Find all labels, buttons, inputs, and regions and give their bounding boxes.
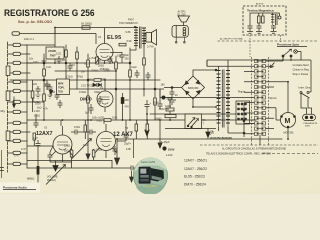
svg-text:Contatto bleid: Contatto bleid: [293, 63, 310, 67]
node B: [87, 79, 89, 81]
wire to oval: [133, 139, 135, 158]
switch labels: [238, 91, 277, 101]
ground GND4 hatched: [271, 32, 277, 34]
wire top bus 2: [26, 28, 55, 64]
capacitor C9: [98, 96, 103, 104]
wire head down dashed: [249, 35, 251, 57]
svg-text:6.6K: 6.6K: [127, 40, 132, 43]
svg-text:25µF+: 25µF+: [124, 143, 132, 146]
svg-text:EL95 - 256/23: EL95 - 256/23: [184, 175, 205, 179]
svg-text:0.47: 0.47: [33, 137, 38, 140]
node G: [171, 87, 173, 89]
wire vertical v7: [143, 34, 145, 96]
svg-text:AL CIRCUITO DI CANCELLAZ. E PR: AL CIRCUITO DI CANCELLAZ. E PREMAGNETIZZ…: [222, 148, 286, 151]
svg-text:47kΩ: 47kΩ: [77, 76, 83, 79]
wire mic dashes: [0, 109, 6, 171]
ground GND5 arrow: [130, 171, 134, 182]
svg-text:220kΩ: 220kΩ: [91, 70, 98, 73]
label Posizione Spia: [277, 43, 307, 47]
resistor R4: [65, 50, 68, 57]
loudspeaker AP main: [172, 11, 190, 37]
wire bus y120: [27, 119, 256, 121]
switch contacts row 6: [255, 85, 266, 88]
wire bus y71: [55, 70, 116, 72]
wire head row to bank: [33, 101, 44, 103]
svg-text:Inter. Gen.: Inter. Gen.: [299, 86, 312, 90]
svg-text:150Ω: 150Ω: [64, 145, 70, 148]
jack J2: [13, 52, 30, 55]
capacitor C28: [55, 92, 60, 100]
node H: [43, 62, 45, 64]
svg-text:16Ω: 16Ω: [88, 79, 93, 82]
svg-text:4.7kΩ: 4.7kΩ: [89, 57, 96, 60]
svg-text:0.22: 0.22: [46, 66, 51, 69]
svg-text:AL/P19: AL/P19: [256, 3, 264, 6]
edge line: [1, 150, 3, 178]
potentiometer arrow mid: [72, 139, 92, 159]
capacitor C4: [108, 56, 113, 64]
svg-text:~ 115/125/160/220V: ~ 115/125/160/220V: [207, 136, 232, 140]
electrolytic C22: [145, 100, 152, 130]
recorder side dark mass: [151, 168, 164, 182]
svg-text:Riprod.: Riprod.: [270, 97, 278, 100]
capacitor C8: [58, 100, 63, 108]
title REGISTRATORE G 256: [4, 8, 95, 18]
switch contacts row 2: [255, 65, 266, 68]
resistor R6: [87, 60, 90, 67]
electrolytic C15: [153, 101, 163, 109]
svg-text:0,7VA: 0,7VA: [147, 46, 154, 49]
head coil L1: [271, 14, 281, 25]
svg-text:Testina Magnetica: Testina Magnetica: [247, 9, 274, 13]
tube V2 12AX7 triode left: [36, 126, 73, 162]
wire vertical v1: [65, 45, 67, 80]
wire bus y139: [117, 138, 282, 140]
ground GND8 arrow: [158, 89, 162, 148]
svg-text:680kΩ: 680kΩ: [27, 178, 34, 181]
svg-text:PRESA RETE: PRESA RETE: [304, 122, 318, 125]
svg-text:1M: 1M: [81, 71, 84, 74]
wire top HT bus: [55, 27, 134, 29]
svg-text:Chiuso in Reg.: Chiuso in Reg.: [293, 68, 310, 72]
wire anode V3 riser: [117, 120, 126, 141]
jack J9: [13, 121, 27, 124]
svg-text:12AX7 - 256/22: 12AX7 - 256/22: [184, 167, 207, 171]
resistor R25 vertical: [121, 93, 124, 120]
svg-text:47kΩ: 47kΩ: [74, 126, 80, 129]
switch bank S1 dashed rails: [252, 57, 269, 145]
resistor R14 horizontal: [104, 119, 111, 122]
node E: [43, 79, 45, 81]
svg-text:6.8K: 6.8K: [126, 31, 131, 34]
wire sw stubs left: [244, 71, 255, 133]
switch contacts row 1: [255, 59, 266, 62]
resistor R22: [135, 120, 138, 139]
svg-text:EL.25A: EL.25A: [178, 14, 187, 17]
resistor R1 on rail: [6, 66, 10, 76]
wire vertical v8: [154, 48, 156, 120]
svg-text:1M: 1M: [71, 64, 74, 67]
svg-text:Soc. p. Az. GELOSO: Soc. p. Az. GELOSO: [18, 20, 52, 24]
resistor R2 on rail: [6, 91, 10, 101]
connector grid CN1: [236, 101, 250, 124]
node C: [115, 88, 117, 90]
wire jack stubs to rail: [8, 45, 14, 164]
svg-text:2.2M: 2.2M: [34, 110, 40, 113]
switch contacts row 10: [255, 106, 266, 109]
switch contacts row 8: [255, 96, 266, 99]
jack J10: [13, 130, 30, 133]
svg-text:22n: 22n: [62, 59, 67, 62]
switch Inter.Gen.: [299, 60, 312, 114]
jack J12: [13, 151, 27, 154]
svg-text:250V: 250V: [168, 147, 175, 151]
svg-text:2.2kΩ: 2.2kΩ: [66, 76, 73, 79]
wire vertical v4: [43, 54, 45, 120]
resistor R3 on rail: [6, 131, 10, 141]
cathode resistor R20 V2: [70, 146, 73, 162]
switch contacts row 9: [255, 101, 266, 104]
wire bus y63: [27, 62, 130, 64]
diode D3: [98, 83, 101, 86]
equalizer network box A784B TM7: [46, 47, 64, 59]
switch contacts row 13: [255, 122, 266, 125]
resistor R13 horizontal: [94, 79, 101, 82]
capacitor C21: [34, 114, 39, 128]
switch contacts row 4: [255, 75, 266, 78]
resistor R27: [43, 69, 46, 76]
wire anode V2: [60, 120, 62, 126]
pilot switch SP: [282, 49, 301, 61]
svg-text:Stop e Pausa: Stop e Pausa: [293, 72, 309, 76]
node D: [129, 62, 131, 64]
capacitor C29: [45, 80, 50, 90]
node A: [65, 62, 67, 64]
switch contacts row 14: [255, 127, 266, 130]
motor M1: [281, 82, 296, 139]
tube V4 EL95 output pentode: [96, 28, 122, 64]
svg-text:6.8K: 6.8K: [126, 148, 131, 151]
resistor R29 filled: [37, 161, 40, 185]
capacitor C27: [36, 86, 41, 98]
svg-text:20K: 20K: [125, 99, 130, 102]
jack J1: [13, 43, 26, 46]
resistor R28: [31, 80, 34, 112]
svg-text:0.47: 0.47: [14, 155, 19, 158]
svg-text:MOT.591: MOT.591: [284, 132, 295, 135]
capacitor C24: [33, 137, 41, 161]
speaker stub wires: [175, 37, 185, 43]
svg-text:AL GRUPPO TESTINA: AL GRUPPO TESTINA: [220, 38, 243, 41]
capacitor C7: [146, 72, 151, 80]
switch contacts row 7: [255, 91, 266, 94]
capacitor C11 head: [248, 18, 253, 31]
wire out y168: [27, 160, 112, 168]
svg-text:150: 150: [125, 58, 130, 61]
ground GND1 hatched: [168, 100, 176, 104]
switch contacts row 11: [255, 111, 266, 114]
svg-text:5µF: 5µF: [85, 112, 90, 115]
ground GND10 arrow: [206, 129, 210, 138]
svg-text:50µF: 50µF: [153, 102, 159, 105]
wire bus y114: [150, 113, 236, 115]
electrolytic C20 25uF: [124, 128, 129, 141]
wire left border: [26, 45, 28, 168]
wire jack row 3: [27, 62, 33, 64]
switch contacts row 3: [255, 70, 266, 73]
wire vertical v6: [129, 48, 131, 120]
capacitor C26: [48, 84, 53, 98]
cathode cap C19 V3: [113, 146, 118, 155]
svg-text:EL95: EL95: [107, 35, 122, 41]
capacitor C25: [42, 58, 47, 66]
svg-text:Mig.: Mig.: [1, 109, 6, 113]
resistor R17 head: [258, 16, 265, 23]
svg-text:0.22: 0.22: [56, 53, 61, 56]
resistor R5: [76, 52, 79, 59]
jack J6: [13, 89, 33, 92]
capacitor C13 head: [271, 25, 276, 31]
svg-text:22n: 22n: [33, 83, 38, 86]
wire bridge left: [160, 88, 182, 90]
cathode cap C18 V2: [48, 152, 72, 162]
wire vertical v5: [115, 56, 117, 120]
capacitor C5 electrolytic 8+8uF: [110, 52, 129, 63]
svg-text:(8µF): (8µF): [156, 118, 162, 121]
speaker SP1 small: [144, 30, 157, 49]
label voltage taps: [207, 131, 232, 140]
label 12AX7 pins: [103, 120, 105, 124]
resistor R10: [143, 58, 146, 65]
capacitor C12 head: [257, 23, 262, 31]
svg-text:7/25: 7/25: [58, 91, 63, 94]
capacitor C6: [135, 70, 140, 78]
ground GND2 hatched: [247, 32, 253, 34]
ground GND9 arrow: [145, 130, 149, 136]
svg-text:4.7M: 4.7M: [34, 101, 40, 104]
svg-text:M: M: [285, 118, 291, 125]
resistor R26: [165, 100, 174, 120]
recorder front dark: [139, 167, 151, 184]
ground GND3 hatched: [256, 32, 262, 34]
arrow down input: [13, 97, 16, 108]
capacitor C14 out: [112, 166, 136, 171]
wire sw row2 left: [207, 60, 255, 66]
node I: [43, 79, 45, 81]
jack J11: [13, 139, 27, 142]
svg-text:0.22 T7/25/2R: 0.22 T7/25/2R: [81, 85, 97, 88]
svg-text:0.22: 0.22: [84, 63, 89, 66]
svg-text:5A 1500Ω: 5A 1500Ω: [81, 23, 92, 26]
svg-text:700Ω: 700Ω: [96, 120, 102, 123]
wire sw row13 left: [250, 120, 256, 123]
jack J13: [13, 162, 27, 165]
wire stub j6: [32, 91, 34, 102]
svg-text:2MΩ(A): 2MΩ(A): [47, 179, 56, 182]
svg-text:10n: 10n: [117, 55, 122, 58]
svg-text:100n: 100n: [33, 61, 39, 64]
svg-text:1M: 1M: [45, 84, 48, 87]
capacitor C23 5uF: [85, 104, 94, 115]
svg-text:12AX7: 12AX7: [36, 131, 52, 137]
wire sw stubs right: [266, 66, 275, 128]
resistor R8: [115, 62, 118, 69]
cathode resistor R21 V3: [92, 149, 95, 160]
svg-text:Reg.G256: Reg.G256: [143, 184, 157, 188]
note 250V B+: [162, 96, 173, 101]
svg-text:0.47: 0.47: [21, 148, 26, 151]
tube list: [184, 159, 207, 187]
wire HT right bus: [207, 60, 311, 66]
svg-text:B30C450: B30C450: [188, 87, 199, 90]
svg-text:1kΩ: 1kΩ: [64, 150, 69, 153]
resistor R12: [43, 94, 46, 101]
resistor R18 cathode EL95: [96, 57, 99, 64]
resistor R16 100ohm 5W: [159, 108, 177, 118]
wire dashes top right: [218, 40, 319, 42]
power transformer T2: [217, 60, 231, 133]
network box MPX: [57, 79, 70, 95]
resistor R11: [154, 98, 157, 105]
svg-text:180: 180: [161, 84, 166, 87]
resistor R7: [87, 96, 90, 103]
switch contacts row 15: [255, 132, 266, 135]
coupling capacitor C16: [71, 130, 84, 135]
svg-text:150Ω: 150Ω: [34, 115, 40, 118]
svg-text:470kΩ: 470kΩ: [79, 91, 86, 94]
svg-text:Posizione Spia: Posizione Spia: [277, 43, 299, 47]
switch contacts row 5: [255, 80, 266, 83]
arrow bank: [270, 63, 275, 68]
photo inset oval: [134, 158, 168, 195]
bridge rectifier B30C450: [182, 76, 205, 99]
jack J4: [13, 71, 30, 74]
wire bus y89: [58, 88, 160, 90]
jack J0 top: [12, 28, 96, 45]
node F: [154, 88, 156, 90]
resistor R9: [129, 70, 132, 77]
wire head down dashed 2: [280, 35, 282, 42]
svg-text:Geloso G256: Geloso G256: [141, 161, 156, 164]
note text contatto: [293, 63, 310, 76]
wire bottom dashed: [200, 144, 318, 146]
label schema leader: [206, 153, 318, 156]
capacitor C1: [57, 56, 62, 64]
svg-text:REGISTRATORE G 256: REGISTRATORE G 256: [4, 8, 95, 18]
diode D2: [93, 83, 96, 86]
svg-text:12µF: 12µF: [131, 66, 137, 69]
svg-text:5.6K: 5.6K: [101, 78, 106, 81]
jack J7: [13, 100, 33, 103]
capacitor C10: [170, 88, 179, 101]
capacitor C2: [68, 63, 73, 71]
ground GND6 arrow: [86, 120, 90, 159]
wire sw row10 right motor: [266, 108, 281, 120]
diode D1: [49, 89, 53, 96]
svg-text:1kΩ: 1kΩ: [37, 107, 42, 110]
resistor R19: [84, 120, 87, 139]
voltage selector box: [165, 114, 216, 129]
subtitle Soc. p. Az. GELOSO: [18, 20, 52, 24]
wire bridge top to transformer: [193, 70, 216, 76]
resistor R23: [146, 120, 149, 139]
svg-text:100: 100: [51, 91, 56, 94]
output transformer T1: [119, 19, 146, 51]
label Posizione Audio: [0, 183, 40, 193]
svg-text:a 41Ω: a 41Ω: [166, 154, 173, 157]
wire sw row8 left: [160, 89, 255, 97]
svg-text:12AX7 - 256/21: 12AX7 - 256/21: [184, 159, 207, 163]
svg-text:100k: 100k: [112, 117, 118, 120]
ground GND7 arrow: [115, 139, 120, 165]
input rail (dashed): [7, 42, 9, 172]
wire sw row5 right: [266, 81, 289, 83]
wire grid V2: [27, 146, 53, 152]
resistor R15 6.6K: [119, 40, 132, 46]
svg-text:TELAIO E SCHEMA ELETTRICO COMP: TELAIO E SCHEMA ELETTRICO COMPL. REG. UF…: [206, 153, 271, 156]
fuse F1: [82, 26, 90, 29]
wire sw stub1: [228, 132, 244, 134]
resistor R24: [33, 133, 36, 146]
mains socket capsule: [303, 114, 318, 127]
jack J5: [13, 80, 27, 83]
wire junction rail: [243, 103, 245, 137]
record head box Testina Magnetica: [243, 3, 286, 36]
tube V3 12AX7 triode right: [95, 124, 133, 158]
svg-text:TOPL: TOPL: [58, 87, 65, 90]
svg-text:Posizione Audio: Posizione Audio: [3, 186, 27, 190]
svg-text:4.7k: 4.7k: [43, 108, 48, 111]
volume potentiometer: [27, 145, 112, 185]
wire v2k down: [71, 162, 73, 168]
coupling capacitor C17: [86, 130, 96, 135]
wire sw row1 right: [266, 57, 284, 61]
wire bus y80: [10, 79, 160, 81]
svg-text:A784B: A784B: [48, 50, 56, 53]
svg-text:DM70: DM70: [80, 97, 92, 102]
wire vertical v3: [87, 54, 89, 120]
wire sw row15 down: [259, 135, 261, 145]
note 250V: [163, 147, 175, 157]
svg-text:10kΩ: 10kΩ: [104, 70, 110, 73]
wire head top: [250, 13, 280, 18]
svg-text:12 AX7: 12 AX7: [113, 132, 133, 138]
svg-text:100n 0.1: 100n 0.1: [24, 38, 34, 41]
wire bridge bottom: [193, 99, 216, 107]
jack J8: [13, 110, 27, 113]
svg-text:50Hz: 50Hz: [305, 126, 310, 128]
jack J3: [13, 61, 27, 64]
svg-text:MPX: MPX: [58, 83, 64, 86]
capacitor C3: [96, 56, 101, 64]
tube V1 DM70 magic eye: [80, 80, 113, 112]
switch contacts row 12: [255, 117, 266, 120]
svg-text:47K: 47K: [125, 106, 130, 109]
wire vertical v2: [76, 47, 78, 89]
svg-text:T007/128MM KS: T007/128MM KS: [119, 22, 138, 25]
svg-text:DM70 - 256/24: DM70 - 256/24: [184, 182, 206, 186]
